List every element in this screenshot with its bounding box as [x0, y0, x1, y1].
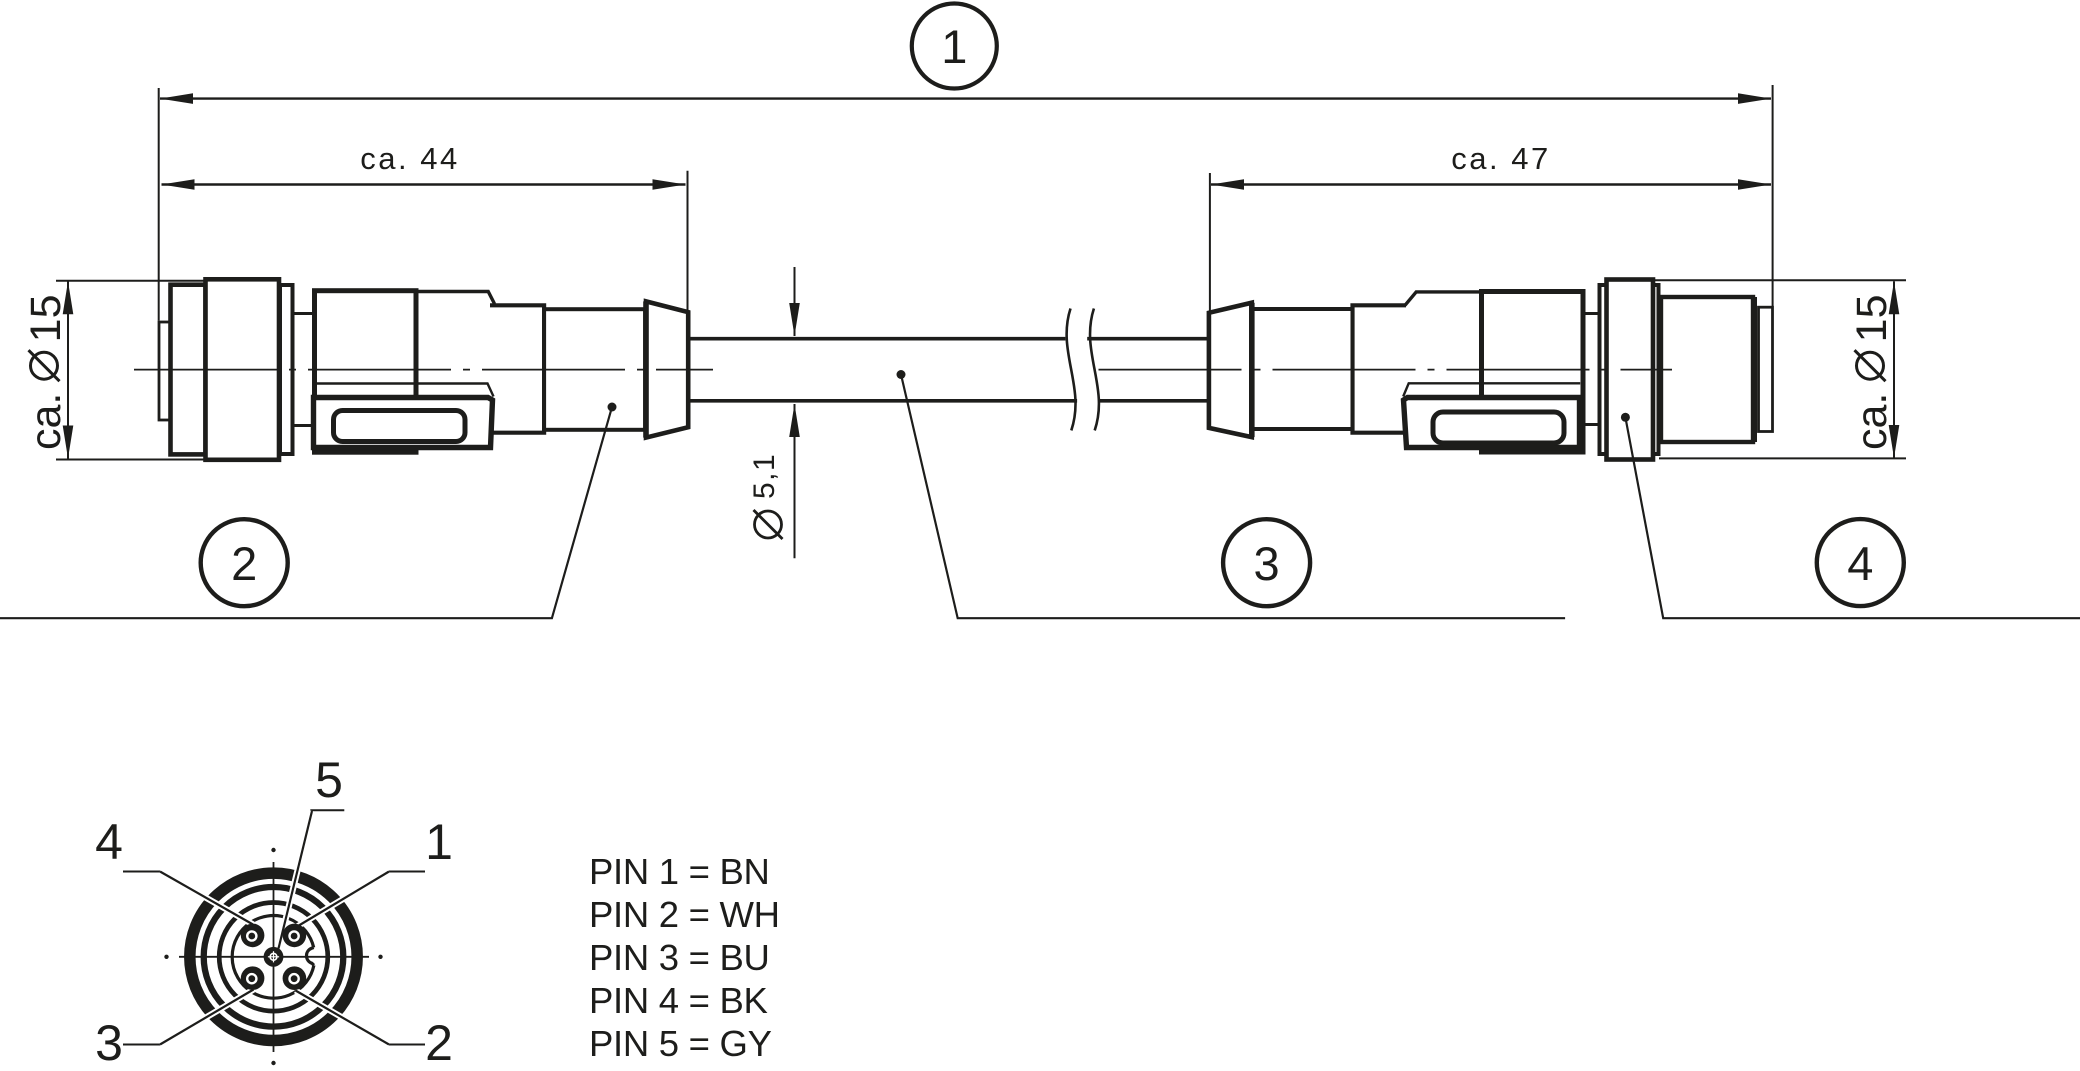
- neck: [1583, 314, 1600, 425]
- overmold body: [1353, 305, 1407, 432]
- pin 3 contact: [241, 966, 265, 990]
- pin label 3 leader: [123, 1044, 160, 1046]
- svg-text:15: 15: [22, 294, 70, 342]
- svg-text:3: 3: [95, 1015, 123, 1071]
- dimension ca.47 arrow right: [1738, 179, 1771, 190]
- front face strip: [159, 322, 170, 420]
- mount knurl B (d15): [1607, 280, 1654, 460]
- callout circle 2: [201, 519, 288, 606]
- strain-relief cone: [646, 301, 688, 437]
- leader line item 2: [0, 407, 612, 618]
- pin label 1 leader: [389, 871, 425, 873]
- dimension 1 overall: dimension line: [160, 97, 1771, 99]
- leader line item 3: [901, 375, 1565, 619]
- knurl ring A: [171, 285, 206, 455]
- svg-text:ca.: ca.: [1848, 393, 1896, 450]
- centerline of cable assembly: [134, 369, 713, 371]
- gripper body: [315, 291, 417, 453]
- latch plate: [1404, 398, 1580, 448]
- ring 2: [204, 887, 344, 1027]
- svg-text:ca. 44: ca. 44: [360, 141, 459, 176]
- barrel knurl: [1661, 297, 1753, 442]
- mount ring A: [1600, 285, 1659, 454]
- front tip: [1759, 307, 1773, 431]
- dimension ca.44: dimension line: [162, 183, 686, 186]
- dimension ca.47 arrow left: [1211, 179, 1244, 190]
- callout circle 3: [1223, 519, 1310, 606]
- dimension ca. d15 right label: [1848, 294, 1896, 450]
- PIN legend: [589, 851, 780, 1064]
- cable break curve 2: [1090, 309, 1099, 431]
- upper flap: [1405, 292, 1583, 305]
- svg-text:PIN 4 = BK: PIN 4 = BK: [589, 980, 768, 1021]
- dimension ca. d15 left: extension lines: [56, 280, 206, 282]
- svg-text:PIN 5 = GY: PIN 5 = GY: [589, 1023, 772, 1064]
- dimension ca.47: extension line left: [1209, 173, 1211, 312]
- boot cylinder: [1252, 309, 1353, 429]
- dimension ca. d15 left label: [22, 294, 70, 450]
- latch flange line: [314, 384, 494, 397]
- svg-text:ca.: ca.: [22, 393, 70, 450]
- washer ring: [280, 285, 293, 454]
- svg-text:1: 1: [425, 814, 453, 870]
- pin label 2 leader: [389, 1044, 425, 1046]
- dimension ca.44 arrow left: [162, 179, 195, 190]
- dimension ca. d15 right: extension lines: [1655, 279, 1906, 281]
- face horizontal centerline: [179, 956, 369, 958]
- leader dot on cable: [897, 370, 906, 379]
- leader dot on left connector: [608, 403, 617, 412]
- strain-relief cone: [1209, 303, 1252, 437]
- neck between washer and gripper: [293, 314, 315, 426]
- pin 1 contact: [283, 924, 307, 948]
- svg-text:PIN 3 = BU: PIN 3 = BU: [589, 937, 770, 978]
- svg-text:5,1: 5,1: [748, 453, 781, 499]
- dimension ca.44: extension line right: [687, 171, 689, 310]
- dimension ca.44 arrow right: [653, 179, 686, 190]
- pin 4 contact: [241, 924, 265, 948]
- latch slot: [334, 411, 466, 442]
- dimension ca. d15 right: dimension line: [1893, 281, 1895, 458]
- dimension ca.47: dimension line: [1211, 183, 1771, 186]
- knurl ring B (d15): [206, 279, 280, 460]
- svg-text:1: 1: [941, 20, 967, 73]
- keyway notch: [306, 948, 313, 966]
- svg-text:PIN 1 = BN: PIN 1 = BN: [589, 851, 770, 892]
- svg-text:4: 4: [1847, 537, 1873, 590]
- overmold body: [490, 305, 544, 432]
- dimension ca. d15 left: dimension line: [67, 281, 69, 458]
- gripper body: [1482, 292, 1584, 453]
- boot cylinder: [544, 309, 645, 430]
- cable break curve 1: [1067, 309, 1076, 431]
- pin label 5 leader: [310, 809, 344, 811]
- cable lines right of break: [1087, 337, 1209, 341]
- svg-text:15: 15: [1848, 294, 1896, 342]
- PIN FACE VIEW: [95, 752, 453, 1071]
- pin 2 contact: [283, 966, 307, 990]
- leader line item 4: [1625, 417, 2080, 618]
- svg-text:4: 4: [95, 814, 123, 870]
- dimension d5,1 label: [748, 453, 783, 539]
- svg-text:PIN 2 = WH: PIN 2 = WH: [589, 894, 780, 935]
- cable lines left of break: [688, 337, 1065, 341]
- latch flange line: [1403, 383, 1580, 396]
- svg-text:3: 3: [1254, 537, 1280, 590]
- upper flap: [416, 292, 494, 306]
- callout circle 4: [1817, 519, 1904, 606]
- pin label 4 leader: [123, 871, 160, 873]
- inner circle with keyway gap: [232, 916, 314, 999]
- latch plate: [314, 398, 493, 448]
- face vertical centerline: [273, 862, 275, 1052]
- svg-text:2: 2: [425, 1015, 453, 1071]
- dimension 1 overall: extension line right: [1772, 85, 1774, 306]
- dimension 1 overall: extension line left: [158, 88, 160, 321]
- dimension 1 arrow right: [1738, 93, 1771, 104]
- pin 5 center contact: [264, 947, 284, 967]
- svg-text:2: 2: [231, 537, 257, 590]
- outer ring: [190, 873, 357, 1040]
- dimension 1 arrow left: [160, 93, 193, 104]
- dimension d5,1: line upper part: [794, 267, 796, 336]
- svg-text:ca. 47: ca. 47: [1451, 141, 1550, 176]
- callout circle 1: [912, 4, 997, 89]
- svg-text:5: 5: [315, 752, 343, 808]
- ring 3: [219, 903, 328, 1012]
- leader dot on right connector: [1621, 413, 1630, 422]
- latch slot: [1433, 412, 1564, 443]
- dimension d5,1: line lower part: [794, 404, 796, 558]
